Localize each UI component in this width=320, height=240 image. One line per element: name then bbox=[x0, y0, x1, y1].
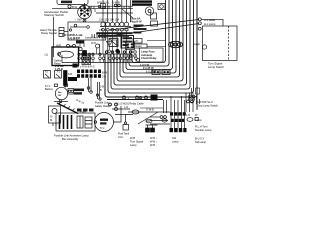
svg-text:AVR: AVR bbox=[56, 44, 61, 48]
svg-text:W-B: W-B bbox=[150, 143, 155, 147]
svg-text:B-W: B-W bbox=[102, 70, 108, 74]
svg-text:W-B ○: W-B ○ bbox=[150, 136, 158, 140]
svg-text:2-B: 2-B bbox=[88, 5, 92, 9]
svg-text:Check Relay: Check Relay bbox=[141, 56, 157, 60]
svg-text:Box Assembly: Box Assembly bbox=[62, 137, 79, 141]
svg-text:Plug B-W: Plug B-W bbox=[130, 20, 142, 24]
svg-text:G-W L-R W-B R-G: G-W L-R W-B R-G bbox=[74, 65, 95, 68]
svg-text:○ SW: ○ SW bbox=[75, 18, 82, 22]
svg-text:Fusible Link: Fusible Link bbox=[95, 100, 110, 104]
svg-text:Tail Lamp: Tail Lamp bbox=[195, 140, 207, 144]
svg-text:Lamp: Lamp bbox=[172, 139, 179, 143]
svg-text:W-B: W-B bbox=[130, 136, 135, 140]
svg-text:Fuse: Fuse bbox=[80, 109, 86, 113]
svg-text:B-U 5-Y: B-U 5-Y bbox=[195, 136, 204, 140]
svg-text:A/C: A/C bbox=[134, 39, 138, 43]
svg-text:Starting Switch: Starting Switch bbox=[44, 13, 64, 17]
svg-text:Autoamp: Autoamp bbox=[141, 53, 153, 57]
svg-text:Amp: Amp bbox=[100, 126, 105, 129]
svg-text:W-B ○: W-B ○ bbox=[150, 139, 158, 143]
svg-text:Lamp Fuse: Lamp Fuse bbox=[141, 49, 155, 53]
svg-text:L-R: L-R bbox=[124, 106, 128, 109]
svg-text:M: M bbox=[50, 118, 52, 122]
svg-text:Unit: Unit bbox=[118, 135, 123, 139]
svg-text:Turn Signal: Turn Signal bbox=[130, 139, 144, 143]
svg-text:B: B bbox=[100, 88, 102, 92]
svg-text:G W-B: G W-B bbox=[146, 108, 154, 112]
svg-text:Lamp Switch: Lamp Switch bbox=[208, 65, 224, 69]
svg-text:(1): (1) bbox=[45, 53, 48, 57]
svg-text:B-W: B-W bbox=[72, 5, 78, 9]
svg-text:2-B: 2-B bbox=[100, 84, 104, 88]
svg-text:Lamp: Lamp bbox=[130, 143, 137, 147]
svg-text:A-STOP SL-F: A-STOP SL-F bbox=[197, 100, 213, 104]
svg-text:Relay Signal: Relay Signal bbox=[41, 31, 57, 35]
svg-text:H-L Lamp: H-L Lamp bbox=[204, 22, 216, 26]
svg-text:C ALT B: C ALT B bbox=[70, 36, 80, 40]
svg-text:5-B: 5-B bbox=[68, 72, 72, 76]
svg-text:2-1.5 W(G) Relay Cable: 2-1.5 W(G) Relay Cable bbox=[116, 101, 144, 105]
svg-text:Lamp: Lamp bbox=[195, 118, 202, 122]
svg-text:Bat: Bat bbox=[58, 91, 62, 94]
svg-text:Stop Lamp Switch: Stop Lamp Switch bbox=[197, 103, 218, 107]
svg-text:L-R: L-R bbox=[186, 114, 190, 117]
svg-text:2-B: 2-B bbox=[102, 75, 106, 79]
svg-text:Fusible Link Ammeter Lamp: Fusible Link Ammeter Lamp bbox=[54, 133, 89, 137]
svg-text:Battery: Battery bbox=[45, 88, 54, 91]
svg-text:Safety Relay: Safety Relay bbox=[95, 104, 110, 108]
svg-text:12V: 12V bbox=[58, 95, 62, 97]
svg-text:R.L.H Turn: R.L.H Turn bbox=[195, 125, 208, 129]
svg-text:Tail: Tail bbox=[172, 136, 176, 140]
svg-text:15A 15A 10A 15A: 15A 15A 10A 15A bbox=[99, 17, 119, 21]
svg-text:G-W B: G-W B bbox=[112, 0, 120, 4]
svg-text:St: St bbox=[50, 114, 53, 118]
svg-text:Lamp: Lamp bbox=[194, 43, 201, 46]
svg-text:W-R: W-R bbox=[91, 42, 96, 45]
svg-text:Number Lamp: Number Lamp bbox=[195, 128, 212, 132]
svg-text:Heater: Heater bbox=[134, 44, 142, 48]
svg-text:H-L Head: H-L Head bbox=[204, 18, 216, 22]
